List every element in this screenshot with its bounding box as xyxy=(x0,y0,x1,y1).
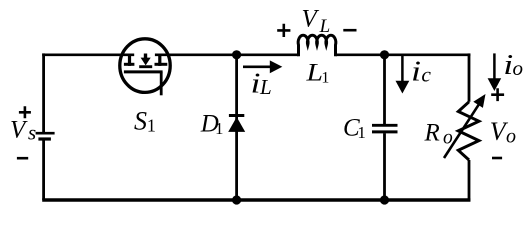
label ic xyxy=(411,56,431,87)
transistor S1 (MOSFET switch) xyxy=(120,39,170,96)
label S1 xyxy=(134,107,156,136)
label VL xyxy=(302,5,331,37)
label Ro xyxy=(424,119,454,148)
svg-text:o: o xyxy=(513,56,524,80)
wire capacitor branch upper: node B to C1 top plate xyxy=(383,55,386,124)
wire top rail: node B to load corner xyxy=(385,53,471,56)
label C1 xyxy=(343,114,366,142)
svg-text:R: R xyxy=(424,119,440,146)
svg-text:1: 1 xyxy=(215,119,224,138)
label iL xyxy=(251,69,272,100)
wire top rail: node A to inductor L1 xyxy=(237,53,299,56)
label Vs xyxy=(10,116,36,144)
svg-text:L: L xyxy=(319,16,331,37)
svg-text:s: s xyxy=(28,120,36,144)
wire right branch upper: load corner down to resistor Ro xyxy=(468,53,471,101)
wire left branch lower (Vs negative terminal to bottom rail) xyxy=(42,139,45,200)
svg-text:L: L xyxy=(305,59,323,86)
svg-text:i: i xyxy=(251,69,261,100)
capacitor C1 xyxy=(372,125,398,132)
svg-text:1: 1 xyxy=(147,116,156,136)
resistor Ro (variable load) xyxy=(444,94,486,160)
current arrow io xyxy=(488,53,502,91)
svg-text:1: 1 xyxy=(357,123,366,142)
wire top rail: MOSFET source to node A xyxy=(155,53,237,56)
current arrow iL xyxy=(243,60,282,73)
plus sign (Vo) xyxy=(491,88,504,101)
plus sign (VL) xyxy=(277,24,290,37)
label Vo xyxy=(490,117,516,148)
inductor L1 xyxy=(298,35,336,56)
node B (output top junction dot) xyxy=(380,50,389,59)
wire bottom rail xyxy=(42,198,470,201)
wire top rail: inductor L1 to node B xyxy=(336,53,385,56)
svg-text:1: 1 xyxy=(321,69,329,86)
node D (bottom rail junction dot below C1) xyxy=(380,195,389,204)
node C (diode anode junction dot on bottom rail) xyxy=(232,195,241,204)
current arrow ic xyxy=(396,54,410,94)
wire diode branch: node A down to bottom rail xyxy=(235,55,238,200)
minus sign (VL) xyxy=(343,29,356,32)
minus sign (Vs) xyxy=(17,157,28,160)
svg-text:c: c xyxy=(421,62,431,86)
svg-text:o: o xyxy=(506,126,516,148)
wire top rail: source positive to MOSFET drain xyxy=(42,53,134,56)
diode D1 xyxy=(228,116,245,132)
label L1 xyxy=(305,59,329,86)
wire capacitor branch lower: C1 bottom plate to bottom rail xyxy=(383,133,386,200)
svg-text:S: S xyxy=(134,107,147,136)
svg-text:L: L xyxy=(259,75,272,99)
svg-text:i: i xyxy=(411,56,421,87)
voltage source Vs (battery) xyxy=(36,133,55,139)
label io xyxy=(503,50,523,81)
svg-text:o: o xyxy=(443,127,453,148)
wire right branch lower: resistor Ro to bottom rail xyxy=(468,160,471,201)
label D1 xyxy=(200,110,224,138)
plus sign (Vs) xyxy=(19,106,31,118)
wire left branch upper (Vs positive terminal to top rail) xyxy=(42,53,45,132)
minus sign (Vo) xyxy=(492,157,502,160)
node A (switch node junction dot) xyxy=(232,50,241,59)
